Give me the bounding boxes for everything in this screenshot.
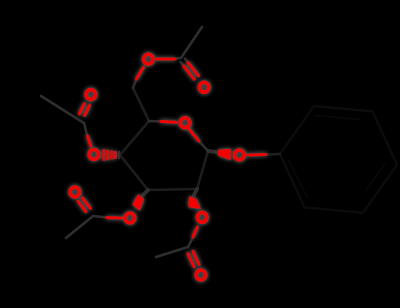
methyl of left acetyl bbox=[41, 96, 84, 123]
ring O5 bbox=[181, 118, 190, 128]
bond O4carbonyl to ester red half bbox=[88, 136, 92, 146]
wire C5-C6 bbox=[133, 88, 149, 121]
ester O of C3 acetyl bbox=[125, 213, 134, 223]
dark half of C3-O3 wedge bbox=[141, 190, 148, 197]
bond O3ester-carbonyl red half bbox=[107, 216, 122, 219]
ester O of C6 acetyl bbox=[144, 54, 153, 64]
phenyl ring (very dark) bbox=[280, 106, 397, 213]
hashed wedge C4-O4 (red bars) bbox=[104, 149, 116, 161]
red portion of structure with gray chroma halo bbox=[70, 54, 266, 280]
wire C5 to ring-O dark half bbox=[149, 120, 161, 123]
methyl of bottom-left acetyl bbox=[66, 216, 93, 238]
benzene ring bbox=[280, 106, 397, 213]
carbonyl O of C3 acetyl bbox=[70, 187, 79, 197]
double bond C=O bottom-center acetyl bbox=[193, 251, 199, 264]
bold wedge C1-O1 (red half) bbox=[218, 149, 231, 161]
wire C3-C4 bbox=[120, 155, 148, 190]
bold wedge C3-O3 (red half) bbox=[133, 194, 144, 211]
ester O of C2 acetyl bbox=[198, 213, 207, 223]
methyl of top acetyl bbox=[181, 27, 202, 58]
bond O6ester-C6 red half bbox=[137, 68, 144, 80]
dark half of C1-O1 wedge bbox=[208, 151, 218, 152]
bond O6ester-carbonyl red half bbox=[157, 58, 175, 61]
double bond C=O bottom-left acetyl bbox=[83, 198, 91, 208]
pyranose ring carbon bonds (dark) bbox=[120, 88, 208, 190]
double bond C=O left acetyl bbox=[85, 105, 90, 115]
wire O1 to phenyl dark half bbox=[266, 153, 280, 156]
wire C2-C3 bbox=[148, 189, 197, 190]
bond O1-phenyl red half bbox=[248, 153, 266, 156]
dark half of C2-O2 wedge bbox=[193, 189, 198, 198]
carbonyl O of C2 acetyl bbox=[196, 270, 205, 280]
wire C6 to O6 dark half bbox=[133, 78, 137, 89]
dark halves of top C=O double bond bbox=[185, 59, 189, 64]
bond O2ester-carbonyl red half bbox=[193, 227, 198, 237]
ester O of C4 acetyl bbox=[89, 150, 98, 160]
anomeric O1 bbox=[235, 150, 244, 160]
wire carbonylC6 to O6-ester dark half bbox=[172, 58, 181, 59]
bold wedge C2-O2 (red half) bbox=[189, 196, 201, 209]
wire C4-C5 bbox=[120, 121, 149, 155]
benzene inner double bonds bbox=[289, 115, 386, 198]
wire carbonylC4 to ester-O4 dark half bbox=[84, 123, 87, 135]
double bond C=O top acetyl bbox=[188, 63, 199, 76]
wire C1-C2 bbox=[197, 151, 208, 189]
carbonyl O of C4 acetyl bbox=[86, 90, 95, 100]
carbonyl O of C6 acetyl bbox=[200, 82, 209, 92]
wire C1 to ring-O dark half bbox=[199, 141, 208, 151]
dark halves of hetero bonds + methyl bonds bbox=[41, 27, 280, 257]
wire carbonylC3 to ester-O3 dark half bbox=[93, 216, 107, 218]
ring O5-C1 red half bbox=[190, 130, 200, 142]
O atom labels (bold O glyphs drawn as rings) bbox=[70, 54, 244, 280]
ring O5-C5 red half bbox=[161, 120, 176, 124]
methyl of bottom-center acetyl bbox=[156, 247, 188, 257]
wire carbonylC2 to ester-O2 dark half bbox=[188, 237, 193, 247]
dark hash marks of C4-O4 wedge bbox=[118, 152, 120, 158]
